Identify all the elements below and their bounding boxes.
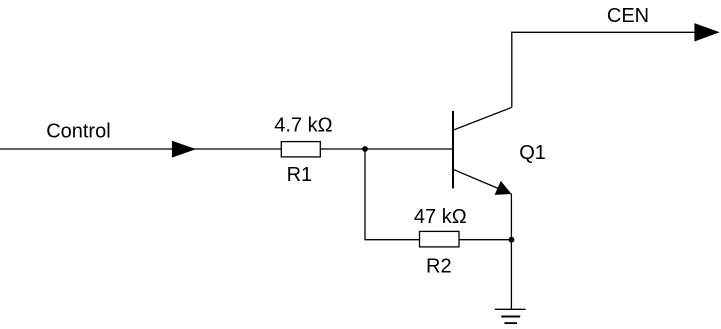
svg-text:Control: Control <box>46 120 110 142</box>
wire: R2 right terminal to emitter node <box>459 239 512 241</box>
wire: collector up <box>511 32 513 108</box>
wire: Control input to R1 <box>0 148 281 150</box>
svg-text:R1: R1 <box>287 164 313 186</box>
resistor R2 <box>420 231 460 247</box>
svg-text:47 kΩ: 47 kΩ <box>414 206 467 228</box>
Q1 emitter lead <box>453 169 511 194</box>
svg-text:R2: R2 <box>426 255 452 277</box>
signal-flow arrow CEN output <box>694 23 719 41</box>
Q1 base bar <box>452 111 454 188</box>
junction dot: emitter node <box>509 237 515 243</box>
signal-flow arrow on Control wire <box>172 141 196 158</box>
ground <box>495 309 526 323</box>
svg-text:Q1: Q1 <box>519 142 546 164</box>
wire: R1 to base node <box>320 148 453 150</box>
svg-text:4.7 kΩ: 4.7 kΩ <box>274 114 332 136</box>
wire: collector to CEN output <box>511 31 695 33</box>
wire: emitter down to ground <box>510 194 512 309</box>
Q1 emitter arrowhead <box>495 181 512 195</box>
junction dot: base node <box>362 146 368 152</box>
Q1 collector lead <box>453 107 512 130</box>
svg-text:CEN: CEN <box>607 5 649 27</box>
transistor Q1 (NPN) <box>453 107 512 195</box>
wire: corner to R2 left terminal <box>364 239 419 241</box>
resistor R1 <box>281 142 320 157</box>
wire: base node down to R2 row <box>364 149 366 240</box>
